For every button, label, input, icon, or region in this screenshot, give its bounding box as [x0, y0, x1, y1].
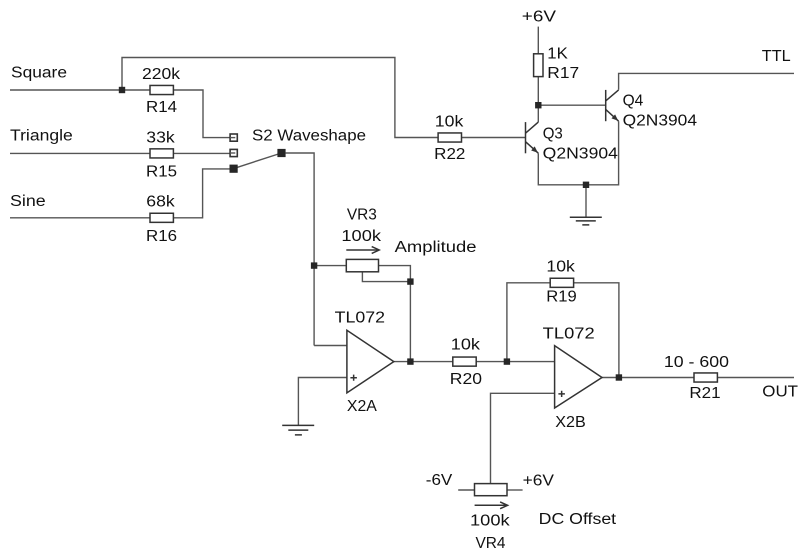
svg-text:Square: Square [11, 64, 67, 81]
svg-text:R21: R21 [689, 385, 720, 402]
svg-text:Q3: Q3 [543, 126, 563, 143]
svg-text:10k: 10k [435, 114, 464, 131]
svg-text:Q2N3904: Q2N3904 [543, 146, 619, 163]
svg-text:Q4: Q4 [623, 92, 644, 109]
svg-text:R14: R14 [146, 99, 177, 116]
svg-text:+6V: +6V [523, 473, 555, 490]
svg-text:Q2N3904: Q2N3904 [623, 113, 698, 130]
svg-text:R22: R22 [434, 146, 465, 163]
svg-text:100k: 100k [470, 512, 510, 529]
svg-text:R16: R16 [146, 228, 177, 245]
svg-text:TTL: TTL [762, 48, 791, 65]
svg-text:R17: R17 [547, 65, 579, 82]
svg-text:S2 Waveshape: S2 Waveshape [252, 128, 366, 145]
svg-text:TL072: TL072 [543, 326, 595, 343]
svg-text:OUT: OUT [762, 384, 798, 401]
svg-text:Sine: Sine [10, 193, 46, 210]
svg-text:Amplitude: Amplitude [395, 239, 477, 256]
svg-text:10 - 600: 10 - 600 [664, 354, 730, 371]
svg-text:68k: 68k [146, 194, 175, 211]
svg-text:VR4: VR4 [476, 535, 506, 552]
svg-text:10k: 10k [451, 337, 480, 354]
svg-text:TL072: TL072 [335, 309, 385, 326]
svg-text:R20: R20 [450, 371, 483, 388]
svg-text:DC Offset: DC Offset [539, 511, 617, 528]
svg-text:R19: R19 [546, 289, 577, 306]
svg-text:-6V: -6V [426, 472, 453, 489]
svg-text:100k: 100k [341, 228, 381, 245]
svg-text:10k: 10k [546, 259, 575, 276]
svg-text:+6V: +6V [522, 9, 557, 26]
svg-text:R15: R15 [146, 163, 177, 180]
svg-text:Triangle: Triangle [10, 127, 73, 144]
svg-text:X2A: X2A [347, 398, 378, 415]
svg-text:X2B: X2B [555, 414, 586, 431]
svg-text:33k: 33k [146, 129, 175, 146]
svg-text:VR3: VR3 [347, 206, 377, 223]
svg-text:1K: 1K [547, 46, 568, 63]
svg-text:220k: 220k [142, 66, 180, 83]
